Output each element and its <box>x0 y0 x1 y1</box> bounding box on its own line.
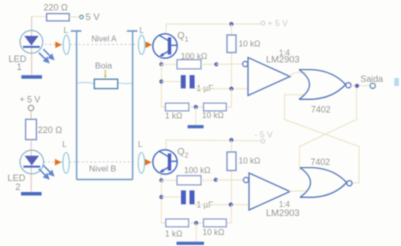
right edge tick <box>394 78 399 86</box>
beam arrow ch1 right <box>146 42 153 49</box>
wire Q2 collector to +5V rail <box>166 140 261 150</box>
wire Q1 collector to +5V rail <box>166 24 261 34</box>
svg-text:220 Ω: 220 Ω <box>44 2 69 12</box>
resistor 1k ch1 <box>165 103 188 111</box>
op-amp U1 LM2903 <box>248 58 290 96</box>
svg-text:LM2903: LM2903 <box>266 208 300 218</box>
svg-text:7402: 7402 <box>311 104 331 114</box>
LED D1 cathode bar <box>23 46 40 48</box>
wire gate1 output to gate2 upper input (feedback) <box>300 86 357 171</box>
wire node to cap ch1 <box>161 81 180 83</box>
LED D1 triangle <box>24 36 38 46</box>
wire cap to comparator plus ch2 <box>195 204 250 206</box>
lens L (ch1 right) <box>138 35 144 54</box>
NOR gate G1 7402 <box>299 70 351 100</box>
node dot 100k right ch1 <box>214 62 218 66</box>
wire terminal to R220 vertical <box>30 111 32 120</box>
U1 inverting bubble <box>243 61 248 66</box>
svg-text:+ 5 V: + 5 V <box>20 94 41 104</box>
svg-text:L: L <box>139 26 144 35</box>
svg-text:1: 1 <box>185 37 189 44</box>
node dot cap left ch1 <box>159 79 163 83</box>
svg-text:L: L <box>64 26 69 35</box>
wire node down to 10k h ch1 <box>226 89 231 107</box>
node dot plus input ch1 <box>229 87 233 91</box>
beam arrow ch1 left <box>55 42 62 49</box>
svg-text:1 kΩ: 1 kΩ <box>165 228 182 238</box>
svg-text:2: 2 <box>185 153 189 160</box>
LED D2 circle <box>20 150 44 174</box>
capacitor 1uF ch1 <box>181 75 186 88</box>
svg-text:220 Ω: 220 Ω <box>38 125 63 135</box>
wire R220 to LED2 / through LED2 <box>30 140 32 192</box>
svg-text:7402: 7402 <box>311 157 331 167</box>
wire node to comparator minus <box>216 63 242 65</box>
svg-text:L: L <box>138 140 143 149</box>
resistor 100k ch1 <box>177 60 201 69</box>
wire divider to ground ch2 <box>195 223 197 242</box>
node dot divider ch1 <box>194 105 198 109</box>
terminal +5V (top left) <box>80 15 84 19</box>
wire vertical through LED1 <box>31 17 33 75</box>
wire U2 out to gate2 input <box>289 190 306 192</box>
NOR gate G2 7402 <box>300 168 352 198</box>
tank right wall <box>132 31 134 180</box>
LED D2 light arrows <box>39 165 54 178</box>
beam arrow ch2 left <box>55 159 62 166</box>
capacitor 1uF ch2 <box>181 190 186 204</box>
tank right top tick <box>127 30 138 32</box>
svg-text:10 kΩ: 10 kΩ <box>239 156 261 166</box>
wire vertical node column ch2 <box>161 180 165 223</box>
svg-text:Boia: Boia <box>95 60 112 70</box>
transistor Q2 <box>153 150 177 174</box>
wire 1k to 10k ch2 <box>189 222 204 224</box>
light beam B (dashed) <box>44 161 136 163</box>
svg-text:1 µF: 1 µF <box>197 83 214 93</box>
wire resistor to 5V terminal <box>69 16 80 18</box>
wire node to 100k ch2 <box>161 179 177 181</box>
svg-text:Nivel B: Nivel B <box>89 164 116 174</box>
ground bar LED2 <box>21 192 42 196</box>
terminal Saida <box>370 83 375 88</box>
resistor 10k (vertical ch2) <box>227 152 236 171</box>
wire Q1 emitter to node <box>160 57 161 64</box>
LED D2 triangle <box>25 156 39 166</box>
wire 100k to node ch2 <box>201 179 216 181</box>
tank left top tick <box>71 30 82 32</box>
wire U1 out to gate1 input <box>289 73 307 76</box>
node dot output <box>355 84 359 88</box>
arrow from Boia to float <box>104 70 106 76</box>
wire vertical node column ch1 <box>161 64 165 107</box>
terminal +5V ch2 <box>261 139 265 143</box>
wire node to cap ch2 <box>161 196 181 198</box>
lens L (ch2 right) <box>138 153 144 174</box>
wire Q2 emitter to node <box>160 173 161 180</box>
terminal +5V ch1 <box>261 21 265 25</box>
wire G1 output to Saida <box>351 85 370 87</box>
light beam A (dashed) <box>45 43 136 45</box>
svg-text:1: 1 <box>17 62 22 72</box>
LED D1 circle <box>20 30 43 53</box>
resistor 1k ch2 <box>166 219 189 227</box>
node dot emitter ch1 <box>159 62 163 66</box>
wire node to comparator minus ch2 <box>216 179 243 181</box>
wire from LED1 top to resistor 220 <box>32 16 47 18</box>
wire 100k to node <box>201 63 216 65</box>
ground bar ch1 <box>188 125 204 128</box>
resistor 10k horizontal ch2 <box>204 219 227 227</box>
LED D2 cathode bar <box>23 166 40 168</box>
beam arrow ch2 right <box>145 159 152 166</box>
wire 1k to 10k ch1 <box>189 106 204 108</box>
svg-text:1 kΩ: 1 kΩ <box>165 111 182 121</box>
resistor 10k (vertical ch1) <box>227 35 236 53</box>
wire gate1 lower input to gate2 output (feedback) <box>285 95 359 183</box>
node dot emitter ch2 <box>159 178 163 182</box>
water line <box>77 82 132 83</box>
svg-text:5 V: 5 V <box>86 11 101 22</box>
LED D1 light arrows <box>39 49 54 62</box>
svg-text:100 kΩ: 100 kΩ <box>181 51 208 61</box>
U2 inverting bubble <box>243 177 248 182</box>
svg-text:10 kΩ: 10 kΩ <box>203 227 225 237</box>
svg-text:100 kΩ: 100 kΩ <box>184 165 211 175</box>
tank left wall <box>76 31 78 180</box>
node dot cap left ch2 <box>159 195 163 199</box>
lens L (ch1 left) <box>63 35 69 54</box>
svg-text:Saida: Saida <box>361 74 384 84</box>
float (boia) <box>94 79 117 88</box>
wire divider to ground ch1 <box>195 107 197 125</box>
node dot rail1/10k <box>229 22 233 26</box>
wire cap to comparator plus ch1 <box>195 88 248 90</box>
svg-text:2: 2 <box>15 182 20 192</box>
wire 10k vertical chain ch2 <box>230 140 232 205</box>
svg-text:Nivel A: Nivel A <box>92 35 118 44</box>
wire node down to 10k h ch2 <box>226 205 231 223</box>
svg-text:10 kΩ: 10 kΩ <box>202 110 224 120</box>
node dot divider ch2 <box>194 221 198 225</box>
op-amp U2 LM2903 <box>249 173 290 210</box>
node dot plus input ch2 <box>229 203 233 207</box>
resistor R 220 ohm (top horizontal) <box>47 14 70 21</box>
svg-text:Q: Q <box>177 29 184 40</box>
svg-text:+ 5 V: + 5 V <box>268 18 289 28</box>
svg-text:LM2903: LM2903 <box>266 55 300 65</box>
wire 10k vertical chain <box>230 24 232 89</box>
svg-text:10 kΩ: 10 kΩ <box>239 38 261 48</box>
tank bottom <box>77 179 133 181</box>
resistor 100k ch2 <box>177 176 201 185</box>
ground bar LED1 <box>21 75 42 79</box>
transistor Q1 <box>153 34 177 58</box>
terminal +5V (bottom left) <box>28 105 33 110</box>
node dot rail2/10k <box>229 138 233 142</box>
resistor 10k horizontal ch1 <box>204 103 227 111</box>
resistor 220 ohm (vertical) <box>26 119 37 139</box>
svg-text:- 5 V: - 5 V <box>255 129 273 139</box>
lens L (ch2 left) <box>63 153 69 174</box>
wire node to 100k <box>161 63 177 65</box>
node dot 100k right ch2 <box>214 178 218 182</box>
svg-text:L: L <box>62 140 67 149</box>
ground bar ch2 <box>177 242 205 245</box>
svg-text:Q: Q <box>177 145 184 156</box>
